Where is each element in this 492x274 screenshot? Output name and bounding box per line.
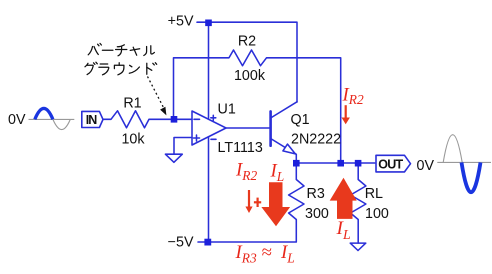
svg-text:IL: IL: [270, 160, 285, 184]
svg-text:R3: R3: [307, 186, 325, 202]
svg-text:10k: 10k: [121, 132, 145, 148]
svg-text:300: 300: [305, 206, 329, 222]
svg-text:0V: 0V: [417, 158, 435, 174]
svg-text:IN: IN: [86, 113, 97, 127]
svg-text:IR2: IR2: [342, 84, 364, 107]
svg-text:−5V: −5V: [168, 235, 194, 251]
svg-text:0V: 0V: [8, 112, 26, 128]
svg-text:U1: U1: [218, 102, 236, 118]
svg-text:IL: IL: [336, 218, 351, 242]
svg-text:OUT: OUT: [378, 158, 403, 172]
svg-text:100: 100: [365, 206, 389, 222]
svg-text:LT1113: LT1113: [218, 140, 263, 156]
svg-text:Q1: Q1: [291, 112, 310, 128]
svg-text:R1: R1: [123, 96, 141, 112]
svg-text:IR3 ≈ IL: IR3 ≈ IL: [235, 242, 295, 266]
svg-text:IR2: IR2: [235, 160, 257, 184]
svg-text:2N2222: 2N2222: [291, 132, 341, 148]
svg-text:R2: R2: [238, 34, 256, 50]
svg-text:+5V: +5V: [168, 14, 194, 30]
svg-text:RL: RL: [365, 186, 383, 202]
svg-text:100k: 100k: [234, 68, 266, 84]
